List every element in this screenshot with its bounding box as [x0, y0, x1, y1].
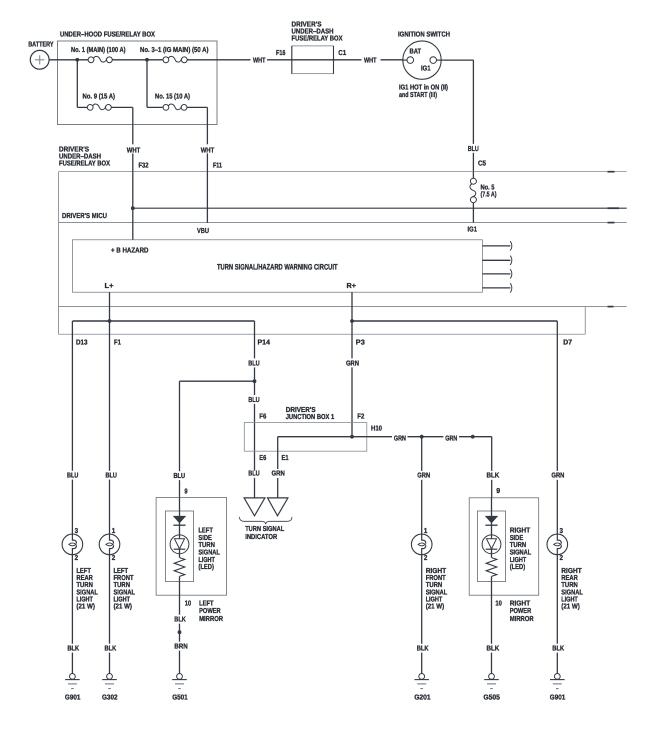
svg-text:C5: C5	[478, 159, 486, 167]
svg-text:10: 10	[185, 599, 192, 607]
svg-text:FUSE/RELAY BOX: FUSE/RELAY BOX	[59, 159, 110, 167]
svg-text:BLK: BLK	[487, 645, 501, 653]
svg-text:BLK: BLK	[487, 472, 501, 480]
svg-text:G501: G501	[172, 693, 188, 701]
svg-text:G901: G901	[550, 693, 566, 701]
svg-text:TURN SIGNAL/HAZARD WARNING CIR: TURN SIGNAL/HAZARD WARNING CIRCUIT	[217, 262, 338, 271]
svg-text:BLU: BLU	[174, 472, 186, 480]
svg-text:GRN: GRN	[551, 472, 564, 480]
svg-text:RIGHT: RIGHT	[510, 599, 531, 607]
svg-text:VBU: VBU	[197, 227, 209, 235]
svg-text:POWER: POWER	[510, 607, 532, 615]
svg-text:E1: E1	[282, 454, 289, 462]
svg-text:3: 3	[560, 527, 564, 535]
svg-text:BLU: BLU	[248, 359, 260, 367]
svg-text:(21 W): (21 W)	[426, 603, 445, 611]
svg-text:D13: D13	[76, 339, 88, 347]
svg-text:3: 3	[75, 527, 79, 535]
svg-text:and START (III): and START (III)	[399, 91, 437, 99]
svg-text:9: 9	[496, 487, 500, 495]
svg-text:F16: F16	[276, 49, 286, 57]
svg-text:1: 1	[424, 527, 428, 535]
svg-text:G302: G302	[102, 693, 118, 701]
svg-text:1: 1	[112, 527, 116, 535]
svg-text:GRN: GRN	[445, 434, 457, 442]
svg-text:UNDER–HOOD FUSE/RELAY BOX: UNDER–HOOD FUSE/RELAY BOX	[60, 31, 155, 39]
svg-text:BLK: BLK	[174, 616, 186, 624]
svg-text:No. 1 (MAIN) (100 A): No. 1 (MAIN) (100 A)	[71, 46, 126, 54]
svg-text:10: 10	[495, 599, 502, 607]
svg-text:F2: F2	[357, 412, 364, 420]
svg-text:(7.5 A): (7.5 A)	[481, 191, 497, 199]
svg-text:BLK: BLK	[105, 645, 117, 653]
svg-text:BLK: BLK	[552, 645, 564, 653]
svg-text:INDICATOR: INDICATOR	[245, 533, 278, 541]
svg-text:WHT: WHT	[127, 146, 141, 154]
svg-text:LEFT: LEFT	[199, 599, 214, 607]
svg-text:BLU: BLU	[67, 471, 78, 479]
svg-text:F6: F6	[259, 412, 266, 420]
svg-text:E6: E6	[259, 454, 266, 462]
svg-text:2: 2	[560, 554, 564, 562]
svg-text:BLK: BLK	[67, 645, 79, 653]
svg-text:G901: G901	[65, 693, 81, 701]
svg-text:G201: G201	[414, 693, 431, 701]
svg-text:GRN: GRN	[346, 359, 359, 367]
svg-text:IG1: IG1	[468, 226, 478, 234]
svg-text:WHT: WHT	[364, 56, 377, 64]
svg-text:BLU: BLU	[468, 145, 479, 153]
svg-text:IGNITION SWITCH: IGNITION SWITCH	[398, 31, 450, 39]
svg-text:F1: F1	[114, 339, 121, 347]
svg-text:2: 2	[75, 554, 79, 562]
svg-text:F11: F11	[213, 161, 222, 169]
svg-text:No. 15 (10 A): No. 15 (10 A)	[155, 92, 190, 100]
svg-text:(21 W): (21 W)	[76, 603, 95, 611]
svg-text:BLU: BLU	[248, 396, 260, 404]
svg-text:MIRROR: MIRROR	[510, 615, 535, 623]
svg-text:GRN: GRN	[394, 434, 406, 442]
svg-text:BLU: BLU	[106, 471, 117, 479]
svg-text:L+: L+	[105, 282, 114, 290]
svg-text:GRN: GRN	[417, 472, 430, 480]
svg-text:(21 W): (21 W)	[114, 603, 133, 611]
svg-text:POWER: POWER	[199, 607, 221, 615]
svg-text:No. 9 (15 A): No. 9 (15 A)	[83, 92, 116, 100]
svg-text:(LED): (LED)	[198, 563, 214, 571]
svg-text:(LED): (LED)	[510, 563, 526, 571]
svg-text:BRN: BRN	[174, 642, 188, 650]
svg-text:2: 2	[112, 554, 116, 562]
svg-text:WHT: WHT	[253, 56, 266, 64]
svg-text:D7: D7	[563, 339, 572, 347]
svg-text:P14: P14	[258, 339, 271, 347]
svg-text:+ B HAZARD: + B HAZARD	[111, 247, 149, 255]
svg-text:G505: G505	[483, 693, 500, 701]
svg-text:R+: R+	[347, 282, 357, 290]
svg-text:P3: P3	[356, 339, 365, 347]
svg-text:F32: F32	[139, 161, 149, 169]
svg-text:GRN: GRN	[272, 470, 285, 478]
svg-text:FUSE/RELAY BOX: FUSE/RELAY BOX	[292, 35, 343, 43]
svg-text:BATTERY: BATTERY	[28, 40, 54, 48]
svg-text:WHT: WHT	[201, 146, 215, 154]
svg-text:BLK: BLK	[417, 645, 429, 653]
svg-text:(21 W): (21 W)	[561, 603, 580, 611]
svg-text:No. 3–1 (IG MAIN) (50 A): No. 3–1 (IG MAIN) (50 A)	[140, 46, 209, 54]
svg-text:H10: H10	[371, 425, 382, 433]
svg-text:JUNCTION BOX 1: JUNCTION BOX 1	[286, 413, 335, 421]
svg-text:IG1: IG1	[421, 65, 431, 73]
svg-text:9: 9	[184, 488, 187, 496]
svg-text:C1: C1	[338, 49, 346, 57]
svg-text:DRIVER'S MICU: DRIVER'S MICU	[62, 212, 107, 220]
svg-text:2: 2	[424, 554, 428, 562]
svg-text:BAT: BAT	[410, 48, 422, 56]
svg-text:MIRROR: MIRROR	[199, 615, 224, 623]
svg-text:BLU: BLU	[248, 470, 260, 478]
